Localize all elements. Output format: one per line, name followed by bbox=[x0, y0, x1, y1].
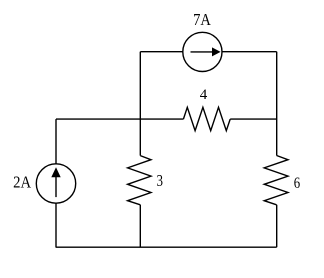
svg-text:7A: 7A bbox=[193, 10, 211, 29]
wire left vertical of top loop into node A bbox=[139, 52, 141, 156]
current source I1 arrow (points right) bbox=[191, 47, 221, 56]
wire right vertical upper bbox=[276, 52, 278, 156]
current source I1 7A circle bbox=[183, 32, 222, 71]
resistor R3 value 6 (vertical zigzag) bbox=[264, 156, 288, 205]
wire resistor-3 bottom stem bbox=[139, 205, 141, 247]
current source I2 arrow (points up) bbox=[51, 167, 60, 197]
wire middle-right segment bbox=[230, 118, 277, 120]
wire top-left segment bbox=[140, 51, 183, 53]
wire left branch lower bbox=[55, 203, 57, 247]
svg-text:4: 4 bbox=[200, 87, 208, 103]
wire bottom rail bbox=[56, 246, 277, 248]
wire middle-left segment bbox=[56, 118, 183, 120]
wire right vertical lower bbox=[276, 205, 278, 247]
wire top-right segment bbox=[222, 51, 277, 53]
wire left branch upper bbox=[55, 119, 57, 164]
resistor R1 value 4 (horizontal zigzag) bbox=[183, 107, 230, 130]
resistor R2 value 3 (vertical zigzag) bbox=[128, 156, 151, 205]
svg-text:3: 3 bbox=[156, 171, 163, 190]
svg-text:2A: 2A bbox=[13, 173, 32, 192]
current source I2 2A circle bbox=[36, 164, 75, 203]
svg-text:6: 6 bbox=[294, 175, 300, 192]
